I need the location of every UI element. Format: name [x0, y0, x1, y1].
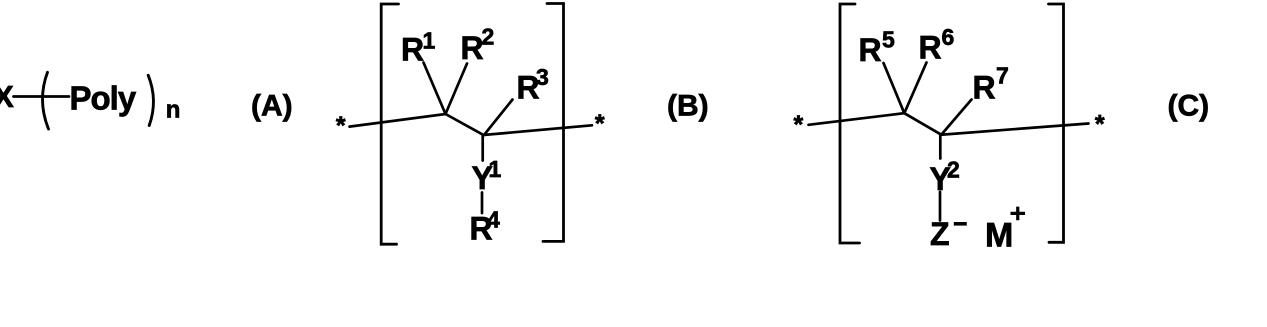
- wire backbone B: [350, 114, 593, 135]
- svg-text:(B): (B): [667, 90, 709, 123]
- wire bond C1'-R6: [904, 63, 926, 114]
- svg-text:Z: Z: [930, 216, 950, 252]
- bracket left of B: [381, 4, 398, 244]
- wire X-Poly bond: [14, 95, 70, 98]
- svg-text:5: 5: [882, 27, 895, 53]
- svg-text:*: *: [595, 110, 605, 138]
- wire bond C2'-R7: [941, 100, 971, 135]
- svg-text:4: 4: [487, 207, 500, 233]
- svg-text:R: R: [401, 32, 424, 68]
- wire bond C1'-R5: [884, 63, 905, 113]
- svg-text:1: 1: [423, 28, 436, 54]
- superscript plus of M: [1011, 207, 1026, 221]
- svg-text:7: 7: [996, 63, 1009, 89]
- svg-text:R: R: [919, 30, 942, 66]
- superscript minus of Z: [954, 222, 967, 226]
- svg-text:R: R: [859, 32, 882, 68]
- svg-text:2: 2: [947, 157, 960, 183]
- wire bond C2-R3: [484, 100, 513, 136]
- wire backbone C: [809, 113, 1089, 135]
- wire bond C2-Y1: [481, 135, 484, 161]
- svg-text:*: *: [1095, 111, 1105, 139]
- bracket right of C: [1049, 4, 1064, 242]
- svg-text:R: R: [973, 70, 996, 106]
- svg-text:*: *: [794, 111, 804, 139]
- svg-text:n: n: [166, 97, 181, 124]
- svg-text:Poly: Poly: [70, 80, 137, 117]
- wire bond C1-R2: [446, 64, 468, 115]
- svg-text:3: 3: [536, 64, 549, 90]
- svg-text:6: 6: [942, 24, 955, 50]
- svg-text:(A): (A): [251, 90, 293, 123]
- svg-text:1: 1: [489, 156, 502, 182]
- wire bond Y2-Z: [939, 192, 942, 221]
- svg-text:*: *: [336, 112, 346, 140]
- wire bond C1-R1: [424, 63, 446, 115]
- svg-text:M: M: [985, 217, 1013, 255]
- svg-text:R: R: [461, 30, 484, 66]
- wire bond Y1-R4: [481, 193, 484, 214]
- close parenthesis of (Poly): [148, 75, 153, 125]
- bracket left of C: [840, 4, 860, 243]
- svg-text:2: 2: [482, 24, 495, 50]
- bracket right of B: [543, 4, 564, 242]
- svg-text:X: X: [0, 79, 14, 114]
- open parenthesis of (Poly): [42, 72, 48, 129]
- wire bond C2'-Y2: [939, 135, 942, 159]
- svg-text:(C): (C): [1168, 90, 1210, 123]
